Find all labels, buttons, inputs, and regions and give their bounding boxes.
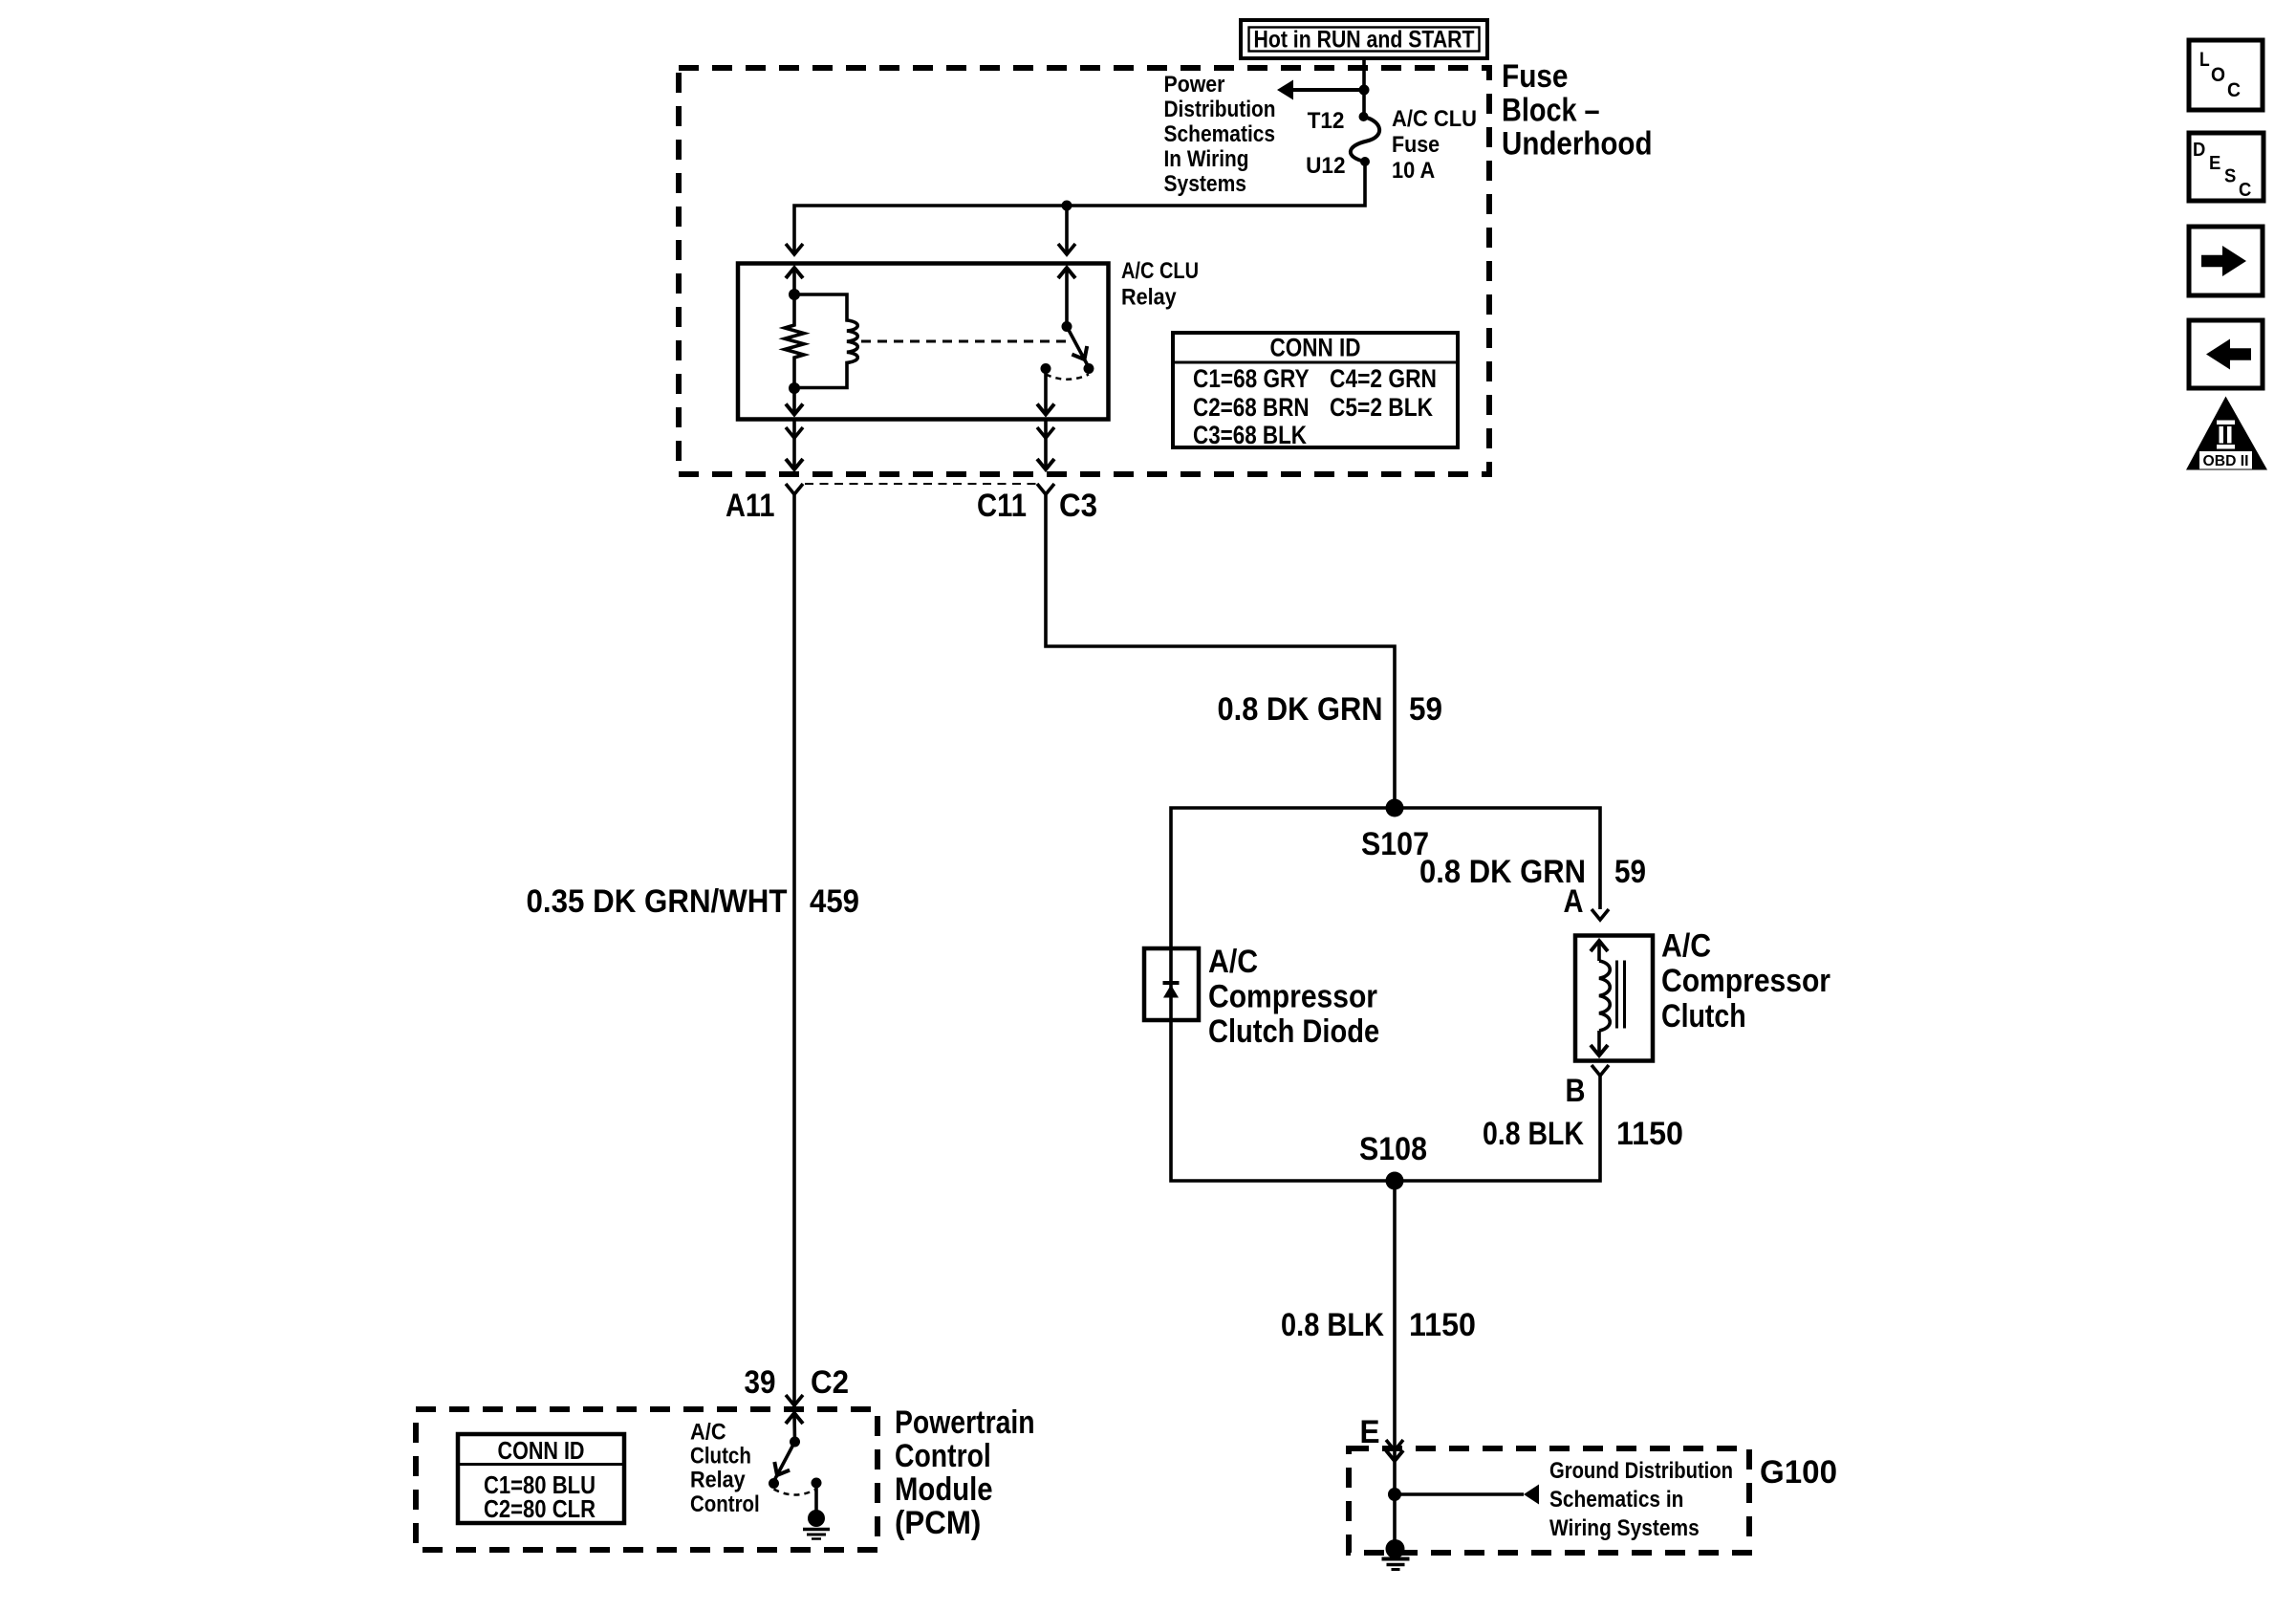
ground symbol G100 xyxy=(1382,1494,1410,1570)
icon LOC xyxy=(2189,40,2263,110)
wire 59: C3 to S107 xyxy=(1046,494,1395,808)
svg-text:A: A xyxy=(1564,883,1584,920)
svg-text:Power: Power xyxy=(1164,72,1225,98)
relay switch arm arrowhead xyxy=(1072,346,1087,359)
wire: branch to power distribution xyxy=(1292,88,1364,92)
svg-text:Block –: Block – xyxy=(1502,93,1600,129)
svg-text:A/C CLU: A/C CLU xyxy=(1392,106,1477,132)
wire: relay pin 87 lead xyxy=(1044,420,1048,470)
pin 87 inline chevron xyxy=(1037,427,1054,438)
svg-text:CONN ID: CONN ID xyxy=(498,1436,585,1465)
svg-text:Clutch: Clutch xyxy=(1661,998,1746,1034)
svg-text:Underhood: Underhood xyxy=(1502,126,1653,163)
svg-text:C3: C3 xyxy=(1059,488,1097,524)
wire: contact input shaft xyxy=(1065,268,1069,327)
junction on hot feed xyxy=(1359,85,1370,96)
svg-text:C1=68 GRY: C1=68 GRY xyxy=(1193,364,1310,393)
svg-text:C2: C2 xyxy=(811,1364,849,1401)
relay actuate dashed link xyxy=(861,340,1069,343)
svg-text:U12: U12 xyxy=(1306,153,1345,179)
power label box: Hot in RUN and START xyxy=(1241,20,1487,58)
connector face dashed line xyxy=(805,483,1036,485)
svg-text:0.8 DK GRN: 0.8 DK GRN xyxy=(1218,691,1383,728)
wire: contact output shaft xyxy=(1044,369,1048,415)
relay contact NO dot xyxy=(1084,363,1094,374)
G100 junction xyxy=(1388,1488,1401,1501)
wire: S107 to diode xyxy=(1171,808,1395,948)
relay K: A/C CLU Relay box xyxy=(738,264,1109,420)
svg-text:D: D xyxy=(2193,140,2205,161)
connector A11 xyxy=(786,484,803,494)
relay contact pivot xyxy=(1062,321,1072,332)
svg-text:(PCM): (PCM) xyxy=(895,1505,981,1541)
wire: coil pin down xyxy=(792,388,796,415)
svg-text:In Wiring: In Wiring xyxy=(1164,146,1249,172)
connector C2 at PCM xyxy=(786,1395,803,1405)
arrow to power distribution schematics xyxy=(1277,80,1293,100)
svg-text:0.8 BLK: 0.8 BLK xyxy=(1281,1307,1384,1343)
svg-text:0.35 DK GRN/WHT: 0.35 DK GRN/WHT xyxy=(527,883,788,920)
icon DESC xyxy=(2189,133,2264,201)
svg-text:A11: A11 xyxy=(726,488,775,524)
icon forward arrow xyxy=(2189,227,2263,295)
connector C11 xyxy=(1037,484,1054,494)
relay coil bottom junction xyxy=(789,382,800,394)
svg-text:CONN ID: CONN ID xyxy=(1270,334,1361,362)
PCM internal driver switch xyxy=(769,1413,830,1539)
wire: feed drop to relay contact xyxy=(1065,206,1069,254)
relay contact output dot xyxy=(1041,363,1051,374)
svg-text:Compressor: Compressor xyxy=(1661,963,1830,999)
connector E xyxy=(1386,1440,1403,1450)
connector chevron into relay coil xyxy=(786,244,803,254)
icon OBD II xyxy=(2186,397,2267,470)
pin 86 arrowhead xyxy=(786,459,803,469)
fuse block dashed box xyxy=(679,68,1489,474)
svg-text:39: 39 xyxy=(745,1364,776,1401)
fuse block CONN ID table xyxy=(1173,333,1458,449)
relay coil pin arrow up xyxy=(786,268,803,278)
G100 entry arrowhead xyxy=(1386,1450,1403,1461)
svg-text:Fuse: Fuse xyxy=(1502,58,1569,95)
relay contact input arrow up xyxy=(1058,268,1075,278)
junction on feed line xyxy=(1062,201,1072,211)
ground block G100 dashed box xyxy=(1349,1448,1749,1553)
svg-text:C: C xyxy=(2239,180,2251,201)
svg-text:C4=2 GRN: C4=2 GRN xyxy=(1330,364,1437,393)
svg-text:59: 59 xyxy=(1614,854,1646,890)
wire: relay coil pin to junction xyxy=(792,268,796,294)
svg-text:A/C CLU: A/C CLU xyxy=(1121,258,1199,284)
relay contact output arrow down xyxy=(1037,404,1054,415)
pin 87 arrowhead xyxy=(1037,459,1054,469)
svg-text:Wiring Systems: Wiring Systems xyxy=(1549,1515,1700,1541)
svg-text:C11: C11 xyxy=(977,488,1027,524)
connector B xyxy=(1592,1065,1609,1076)
fuse F: A/C CLU Fuse 10 A xyxy=(1351,112,1379,166)
relay coil pin arrow down xyxy=(786,404,803,415)
svg-text:459: 459 xyxy=(810,883,859,920)
PCM dashed box xyxy=(416,1409,877,1550)
wire: clutch B to S108 xyxy=(1395,1076,1600,1181)
connector chevron into relay contact xyxy=(1058,244,1075,254)
wire: S107 to clutch A xyxy=(1395,808,1600,909)
svg-text:Distribution: Distribution xyxy=(1164,97,1276,122)
svg-text:C2=68 BRN: C2=68 BRN xyxy=(1193,393,1310,422)
svg-text:O: O xyxy=(2211,64,2225,86)
svg-text:C5=2 BLK: C5=2 BLK xyxy=(1330,393,1433,422)
svg-text:Hot in RUN and START: Hot in RUN and START xyxy=(1254,27,1475,54)
wire: fuse to relay feed xyxy=(794,162,1365,254)
svg-text:A/C: A/C xyxy=(1208,944,1258,980)
svg-text:Compressor: Compressor xyxy=(1208,979,1377,1015)
svg-text:Relay: Relay xyxy=(690,1468,746,1493)
svg-text:S: S xyxy=(2224,166,2236,187)
svg-text:Clutch: Clutch xyxy=(690,1444,751,1469)
wire: hot feed drop xyxy=(1362,58,1366,117)
wire: to ground distribution xyxy=(1395,1492,1524,1496)
svg-text:C3=68 BLK: C3=68 BLK xyxy=(1193,421,1307,449)
svg-text:B: B xyxy=(1566,1073,1586,1109)
svg-text:59: 59 xyxy=(1409,691,1442,728)
svg-text:Clutch Diode: Clutch Diode xyxy=(1208,1013,1379,1050)
svg-text:Relay: Relay xyxy=(1121,285,1177,311)
svg-text:Fuse: Fuse xyxy=(1392,132,1440,158)
arrow to ground distribution schematics xyxy=(1524,1485,1539,1505)
svg-text:E: E xyxy=(1360,1414,1380,1450)
wire: diode to S108 xyxy=(1171,1020,1395,1181)
coil L: A/C Compressor Clutch xyxy=(1575,936,1653,1061)
svg-text:0.8 BLK: 0.8 BLK xyxy=(1483,1116,1584,1152)
svg-text:E: E xyxy=(2209,153,2220,174)
svg-text:G100: G100 xyxy=(1760,1454,1837,1491)
svg-text:Powertrain: Powertrain xyxy=(895,1404,1035,1441)
wire: G100 internal xyxy=(1393,1450,1397,1494)
svg-text:L: L xyxy=(2199,49,2210,71)
relay contact dashed arc xyxy=(1046,375,1089,380)
svg-text:T12: T12 xyxy=(1308,108,1345,134)
svg-text:C: C xyxy=(2227,79,2241,101)
svg-text:OBD II: OBD II xyxy=(2203,453,2249,469)
relay coil winding xyxy=(794,294,857,388)
svg-text:Systems: Systems xyxy=(1164,171,1247,197)
svg-text:1150: 1150 xyxy=(1616,1116,1683,1152)
wire 1150: S108 to G100 xyxy=(1393,1181,1397,1450)
wire 459: A11 to PCM xyxy=(792,494,796,1412)
svg-text:A/C: A/C xyxy=(1661,928,1711,965)
resistor in relay xyxy=(785,294,804,388)
svg-text:A/C: A/C xyxy=(690,1420,726,1446)
wire: relay pin 86 lead xyxy=(792,420,796,470)
pcm switch arm arrowhead xyxy=(774,1462,790,1475)
splice S107 xyxy=(1386,799,1404,817)
svg-text:0.8 DK GRN: 0.8 DK GRN xyxy=(1419,854,1586,890)
svg-text:Schematics in: Schematics in xyxy=(1549,1487,1683,1513)
pin 86 inline chevron xyxy=(786,427,803,438)
icon back arrow xyxy=(2189,320,2263,388)
svg-text:10 A: 10 A xyxy=(1392,158,1435,184)
svg-text:S108: S108 xyxy=(1359,1131,1427,1167)
svg-text:Control: Control xyxy=(895,1438,991,1474)
PCM CONN ID table xyxy=(458,1434,624,1523)
svg-text:C2=80 CLR: C2=80 CLR xyxy=(484,1494,596,1523)
diode D: A/C Compressor Clutch Diode xyxy=(1144,948,1199,1020)
svg-text:Schematics: Schematics xyxy=(1164,121,1276,147)
connector A xyxy=(1592,909,1609,920)
relay switch arm xyxy=(1067,327,1088,365)
splice S108 xyxy=(1386,1172,1404,1190)
relay coil top junction xyxy=(789,289,800,300)
svg-text:Module: Module xyxy=(895,1471,993,1508)
svg-text:1150: 1150 xyxy=(1409,1307,1476,1343)
svg-text:Control: Control xyxy=(690,1491,760,1517)
svg-text:Ground Distribution: Ground Distribution xyxy=(1549,1458,1733,1484)
